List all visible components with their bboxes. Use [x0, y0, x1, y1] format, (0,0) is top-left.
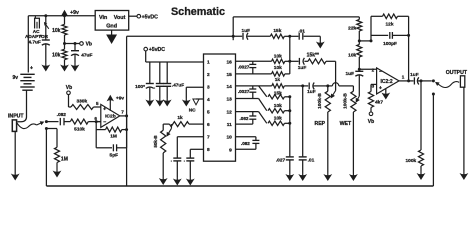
svg-text:WET: WET [340, 121, 352, 127]
ground [149, 98, 151, 104]
svg-text:−: − [379, 69, 382, 75]
op-amp IC2:2 [377, 68, 399, 94]
node +5vDC [144, 47, 148, 51]
ground [420, 171, 422, 178]
svg-text:100k-B: 100k-B [317, 93, 323, 109]
resistor 510k [70, 119, 88, 124]
svg-text:IC2b: IC2b [105, 113, 116, 119]
svg-text:2: 2 [372, 67, 375, 72]
resistor 22k [357, 20, 362, 32]
wire pin14 node down [302, 86, 304, 156]
svg-text:9: 9 [229, 147, 232, 153]
resistor 10k lpf2 [268, 121, 285, 125]
wire battery positive lead [27, 16, 29, 73]
resistor 15k** [308, 59, 326, 64]
wire battery negative to input jack sleeve [18, 90, 27, 122]
svg-text:2: 2 [207, 72, 210, 78]
junction lpf bus top [288, 95, 291, 98]
svg-text:8: 8 [207, 147, 210, 153]
capacitor 1uF wet return [358, 69, 360, 71]
junction pin16 node [288, 60, 291, 63]
capacitor 1uF wet send [290, 60, 299, 62]
junction 9v rail / 4.7uF [44, 14, 47, 17]
svg-text:10k: 10k [52, 28, 61, 34]
resistor 1k delay [189, 123, 204, 125]
wire pin6 input [96, 121, 101, 123]
junction dry row / feedback rail [232, 35, 235, 38]
ground [64, 62, 66, 69]
ground [159, 98, 161, 104]
svg-text:22k: 22k [348, 26, 356, 32]
wire IC2b output up to mix row [126, 36, 128, 116]
svg-text:4k7: 4k7 [375, 100, 383, 106]
pin15 row resistor 10k [236, 73, 272, 75]
svg-text:ADAPTOR: ADAPTOR [25, 34, 49, 39]
potentiometer 100k-B WET [351, 91, 356, 112]
svg-text:1: 1 [402, 74, 405, 79]
op-amp IC2b [101, 104, 120, 127]
svg-text:Schematic: Schematic [171, 6, 225, 18]
ground [463, 171, 465, 178]
svg-text:10k: 10k [274, 116, 282, 122]
ground [162, 176, 164, 183]
junction pin14 node [301, 84, 304, 87]
svg-text:14: 14 [226, 84, 232, 90]
wire pot to ground [162, 153, 164, 176]
ground [319, 36, 321, 46]
svg-text:100*: 100* [135, 84, 145, 90]
svg-text:1k: 1k [177, 115, 183, 121]
potentiometer 50k-B delay [162, 124, 164, 130]
svg-text:13: 13 [226, 97, 232, 103]
bypass switch input wiper [37, 122, 43, 125]
svg-text:Vout: Vout [114, 15, 126, 21]
svg-text:15: 15 [226, 72, 232, 78]
svg-text:15k**: 15k** [307, 53, 319, 59]
ground [166, 98, 168, 104]
junction 9v rail / divider [63, 14, 66, 17]
resistor 10k lower [64, 44, 66, 50]
svg-text:10k: 10k [52, 52, 61, 58]
capacitor 100pF [371, 34, 388, 36]
capacitor .47uF decoupling [166, 62, 168, 83]
capacitor .0027 pins16-15 [252, 61, 254, 64]
wire regulator output [129, 15, 137, 17]
resistor 330k [71, 105, 94, 110]
ground [185, 98, 187, 104]
wire IC2b output down to bypass bus [126, 116, 128, 186]
ground [327, 173, 329, 179]
svg-text:100k-B: 100k-B [343, 93, 349, 109]
ground [56, 163, 58, 176]
capacitor .01 top [298, 33, 300, 40]
junction lpf bus mid [288, 109, 291, 112]
svg-text:1uF: 1uF [298, 65, 307, 71]
ground [45, 62, 47, 69]
ground IC2:2 supply [385, 89, 387, 92]
pin11 stub [236, 123, 253, 125]
wire Vb to 330k [68, 95, 70, 107]
capacitor .082 input [46, 121, 58, 123]
wire input cable squiggle [17, 122, 37, 128]
svg-text:1uF: 1uF [410, 72, 419, 78]
svg-text:100k: 100k [406, 158, 417, 164]
junction dry row / pin16 node [288, 35, 291, 38]
svg-text:3: 3 [207, 84, 210, 90]
svg-text:1: 1 [207, 59, 210, 65]
resistor 10k fb [358, 41, 360, 45]
svg-text:10: 10 [226, 135, 232, 141]
wire to pin2 [359, 68, 376, 70]
ground [352, 173, 354, 179]
capacitor 1uF output [413, 77, 415, 84]
svg-text:.01: .01 [308, 157, 315, 163]
capacitor .1 decoupling [159, 62, 161, 83]
capacitor 1uF dry [242, 33, 244, 40]
svg-text:Vin: Vin [99, 15, 107, 21]
diagonal pin13 to 10k [259, 99, 267, 111]
node Vb divider [63, 42, 66, 45]
svg-text:10k: 10k [274, 65, 282, 71]
pin16 row resistor 10k [236, 60, 272, 62]
svg-text:12k: 12k [385, 22, 393, 28]
wire join pins 16/15 [289, 61, 291, 74]
pin13 row [236, 98, 259, 100]
svg-text:16: 16 [226, 59, 232, 65]
svg-text:1uF: 1uF [242, 28, 251, 34]
capacitor .082 pins10-9 loop [236, 136, 256, 138]
wire bypass bus up to switch [432, 94, 434, 186]
wire to WET pot top [352, 86, 354, 91]
svg-text:5: 5 [207, 110, 210, 116]
svg-text:6: 6 [207, 122, 210, 128]
ground [111, 30, 113, 35]
svg-text:REP: REP [314, 121, 325, 127]
svg-text:100pF: 100pF [383, 41, 397, 47]
resistor 12k [371, 15, 383, 17]
svg-text:+9v: +9v [116, 95, 124, 101]
svg-text:.01: .01 [298, 28, 305, 34]
junction 47uF [74, 42, 77, 45]
IC PT2399 U1 [204, 54, 236, 161]
svg-text:.082: .082 [57, 112, 67, 118]
svg-text:50k-B: 50k-B [153, 135, 158, 148]
wire pin3 to ground [186, 86, 203, 88]
AC adaptor plug [35, 18, 40, 28]
wire bottom bypass bus [46, 185, 433, 187]
ground [302, 173, 304, 179]
voltage regulator U-REG [95, 11, 129, 31]
pot wiper [171, 124, 173, 128]
svg-text:+: + [30, 66, 33, 72]
resistor 10k lpf1 [268, 109, 285, 113]
wire fb to output [408, 16, 410, 81]
capacitor 100uF decoupling [149, 62, 151, 83]
svg-text:5: 5 [96, 101, 99, 106]
svg-text:330k: 330k [76, 99, 87, 105]
node input switch contact A [45, 120, 48, 123]
junction 22k/10k feedback [358, 39, 361, 42]
svg-text:7: 7 [121, 109, 124, 114]
junction 1M feedback [125, 128, 128, 131]
capacitor 1uF rep [308, 83, 310, 90]
feedback resistor 1M [95, 122, 97, 148]
node input switch contact B [45, 127, 48, 130]
svg-text:.082: .082 [240, 116, 249, 121]
ground [14, 174, 16, 179]
feedback network row [359, 40, 371, 42]
svg-text:1k: 1k [275, 77, 281, 83]
resistor 15k lpf [268, 95, 285, 99]
capacitor .0027 pins14-13 [252, 86, 254, 89]
svg-text:−: − [103, 119, 106, 125]
svg-text:47uF: 47uF [81, 53, 92, 59]
resistor 15k dry [270, 34, 284, 38]
junction pin6 IC2b [95, 120, 98, 123]
capacitor .01 lower [299, 156, 307, 158]
svg-text:5pF: 5pF [110, 152, 119, 158]
capacitor pin7 LPF [177, 136, 203, 138]
junction pin2 tap [358, 68, 361, 71]
feedback capacitor 5pF [96, 147, 112, 149]
diagonal pin12 to 10k [259, 112, 267, 124]
svg-text:510k: 510k [74, 127, 85, 133]
svg-text:10k: 10k [274, 54, 282, 60]
svg-text:NC: NC [189, 108, 196, 114]
ground [289, 173, 291, 179]
resistor 1M pulldown [46, 128, 57, 130]
svg-text:1M: 1M [110, 134, 117, 140]
wire hop over wiper line [328, 85, 333, 87]
ground [74, 62, 76, 69]
svg-text:+9v: +9v [70, 10, 79, 16]
wire REP pot to ground [327, 112, 329, 173]
output switch wiper + cable [436, 83, 440, 86]
junction REP pot top [326, 84, 329, 87]
svg-text:INPUT: INPUT [8, 114, 24, 120]
wire input jack sleeve to ground [14, 131, 16, 173]
junction op-amp output [407, 79, 410, 82]
svg-text:OUTPUT: OUTPUT [446, 70, 468, 76]
wire +5v rail to pin1 [146, 61, 204, 63]
wire 15k to REP wiper [326, 60, 336, 62]
svg-text:1M: 1M [61, 156, 68, 162]
svg-text:Vb: Vb [86, 42, 92, 48]
svg-text:IC2:2: IC2:2 [380, 79, 392, 85]
wire +9v top rail [28, 15, 95, 17]
node output switch contact B [432, 93, 435, 96]
wire IC2b output [120, 115, 127, 117]
resistor 10k upper [64, 16, 66, 25]
pin14 row resistor 1k [236, 85, 272, 87]
svg-text:.027: .027 [276, 158, 286, 164]
svg-text:+: + [103, 107, 106, 113]
wire pin3 bias [371, 83, 377, 85]
svg-text:1uF: 1uF [345, 71, 354, 77]
junction 100k tap [420, 79, 423, 82]
svg-text:4.7uF: 4.7uF [28, 39, 41, 45]
svg-text:.082: .082 [241, 141, 250, 146]
wire feedback rail up and right [232, 17, 234, 36]
svg-text:+: + [40, 33, 43, 38]
svg-text:+5vDC: +5vDC [142, 14, 159, 20]
svg-text:12: 12 [226, 110, 232, 116]
capacitor .027 [286, 156, 294, 158]
svg-text:10k: 10k [348, 53, 356, 59]
svg-text:Gnd: Gnd [106, 24, 117, 30]
junction fb loop right [407, 34, 410, 37]
svg-text:.0027: .0027 [238, 89, 250, 94]
svg-text:Vb: Vb [368, 119, 374, 125]
svg-text:9v: 9v [13, 75, 19, 81]
svg-text:10k: 10k [274, 103, 282, 109]
wire op-amp output [399, 80, 414, 82]
capacitor pin8 LPF [190, 148, 203, 150]
ground [176, 177, 178, 183]
wire WET pot to ground [352, 112, 354, 173]
ground [189, 177, 191, 183]
junction fb loop left [370, 39, 373, 42]
capacitor .082 pins12-11 [252, 112, 254, 116]
wire down to pin16 node [289, 36, 291, 61]
pin12 row [236, 111, 259, 113]
adaptor plug-in arrow [44, 23, 48, 29]
junction IC2b output [125, 114, 128, 117]
+9v supply arrow IC2b [109, 97, 111, 111]
wire lpf bus down [289, 97, 291, 157]
wire bypass to bottom bus [45, 129, 47, 187]
WET pot wiper [357, 96, 360, 101]
svg-text:Vb: Vb [66, 85, 72, 91]
svg-text:15k: 15k [274, 90, 282, 96]
potentiometer 100k-B REP [327, 86, 329, 91]
svg-text:1uF: 1uF [307, 89, 316, 95]
diagonal pin14 to 15k [259, 86, 267, 97]
svg-text:15k: 15k [273, 28, 281, 34]
svg-text:.0027: .0027 [238, 64, 250, 69]
resistor 4k7 [368, 92, 373, 108]
wire rail corner down [358, 17, 360, 20]
svg-text:+5vDC: +5vDC [149, 47, 166, 53]
wire dry mix row [127, 35, 243, 37]
wire output jack sleeve to ground [463, 87, 465, 171]
svg-text:.47uF: .47uF [172, 83, 184, 88]
svg-text:11: 11 [227, 122, 232, 128]
wire wet mix row [303, 85, 309, 87]
svg-text:+: + [379, 85, 382, 91]
node output switch contact A [432, 79, 435, 82]
svg-text:7: 7 [207, 135, 210, 141]
battery B1 9v [20, 73, 34, 75]
junction lpf bus low [288, 122, 291, 125]
pin4 NC open triangle [196, 98, 204, 100]
svg-text:4: 4 [207, 97, 210, 103]
